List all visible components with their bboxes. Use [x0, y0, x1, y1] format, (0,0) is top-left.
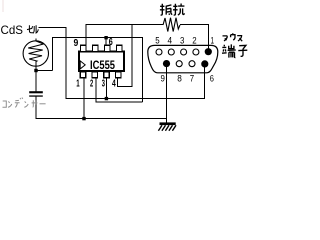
svg-text:6: 6 — [210, 74, 214, 84]
svg-text:1: 1 — [211, 36, 215, 46]
svg-text:CdS: CdS — [1, 23, 24, 37]
svg-text:2: 2 — [192, 36, 196, 46]
svg-text:6: 6 — [109, 37, 113, 48]
svg-text:5: 5 — [155, 36, 159, 46]
svg-text:2: 2 — [90, 78, 93, 89]
svg-text:9: 9 — [74, 38, 79, 49]
svg-text:4: 4 — [112, 78, 116, 89]
svg-text:3: 3 — [180, 36, 184, 46]
svg-text:8: 8 — [177, 74, 182, 84]
svg-text:1: 1 — [76, 78, 80, 89]
svg-text:3: 3 — [102, 78, 105, 89]
svg-text:4: 4 — [168, 36, 173, 46]
svg-text:7: 7 — [190, 74, 194, 84]
svg-text:9: 9 — [161, 74, 165, 84]
svg-text:IC555: IC555 — [90, 58, 115, 72]
